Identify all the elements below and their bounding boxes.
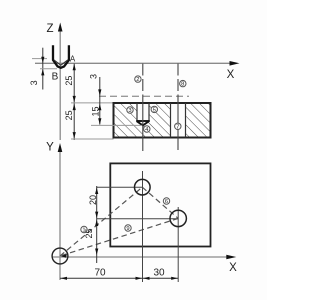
svg-text:1: 1 [82, 228, 85, 234]
svg-text:5: 5 [153, 108, 156, 114]
svg-text:20: 20 [88, 195, 98, 205]
through hole walls [171, 103, 186, 138]
centerline hole1 (top view) [142, 64, 144, 98]
hole2 circle [170, 210, 186, 226]
svg-text:25: 25 [64, 76, 74, 86]
step 1 [81, 226, 87, 233]
svg-text:B: B [52, 72, 59, 83]
step 5 [151, 106, 157, 113]
centerline hole2 (top view) [177, 64, 179, 98]
dim 20 [88, 186, 98, 263]
step 4 [144, 126, 150, 133]
X axis (top view) [35, 61, 240, 66]
step 6 [163, 198, 169, 205]
Z axis [58, 23, 63, 141]
centerline hole1 (bottom view) [142, 171, 144, 282]
step 7 [175, 123, 181, 130]
svg-text:7: 7 [176, 124, 179, 130]
svg-text:X: X [229, 262, 237, 274]
drill tool [53, 45, 69, 68]
svg-text:3: 3 [29, 80, 39, 85]
return path hole2 to origin [60, 218, 178, 256]
workpiece section (hatched) [114, 102, 211, 140]
origin circle [52, 248, 68, 264]
dim 25 lower [64, 103, 114, 139]
svg-text:3: 3 [128, 108, 131, 114]
svg-text:70: 70 [94, 268, 106, 279]
svg-text:8: 8 [181, 82, 184, 88]
rapid path origin to hole1 [60, 187, 142, 256]
extension line to hole1 center [97, 186, 142, 188]
step 9 [125, 225, 131, 232]
svg-text:2: 2 [136, 77, 139, 83]
return arrow at origin [61, 254, 67, 258]
svg-text:Z: Z [46, 23, 53, 35]
hole1 circle [135, 179, 151, 195]
svg-text:6: 6 [165, 199, 168, 205]
dim 3 tool tip [29, 48, 57, 90]
extension line to hole2 center [97, 218, 178, 220]
svg-text:15: 15 [90, 106, 100, 116]
X axis (bottom view) [52, 255, 236, 260]
svg-text:Y: Y [46, 142, 54, 154]
step 8 [180, 80, 186, 87]
dim 3 (R plane) and dim 15 [89, 74, 143, 125]
rapid path hole1 to hole2 [142, 187, 178, 218]
R plane dashed line [99, 95, 189, 97]
Y axis [58, 143, 63, 280]
step 3 [127, 107, 133, 114]
svg-text:9: 9 [126, 226, 129, 232]
svg-text:25: 25 [64, 110, 74, 120]
blind hole cavity [137, 102, 149, 122]
workpiece outline (top view) [110, 163, 210, 246]
dim 25 (bottom) [84, 220, 98, 256]
svg-text:3: 3 [89, 74, 99, 79]
drill cone at blind hole bottom [136, 121, 150, 126]
svg-text:X: X [227, 69, 235, 81]
tool inner edge [54, 60, 68, 65]
part outline [114, 103, 211, 138]
svg-text:A: A [70, 54, 76, 63]
dim line 70/30 [60, 267, 178, 280]
dim 25 upper (chain at x=74.2) [64, 64, 76, 141]
step 2 [135, 76, 141, 83]
svg-text:30: 30 [153, 267, 165, 278]
centerline hole2 (bottom view) [177, 207, 179, 282]
blind hole walls [137, 103, 149, 121]
through hole cavity [171, 102, 186, 140]
